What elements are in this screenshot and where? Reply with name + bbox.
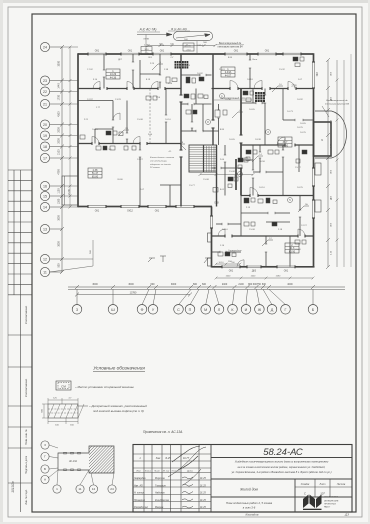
svg-text:тепловым пунктом В4: тепловым пунктом В4 — [217, 46, 243, 49]
svg-text:16.25: 16.25 — [297, 127, 303, 129]
svg-text:16.65: 16.65 — [229, 139, 235, 141]
svg-text:3: 3 — [44, 443, 46, 447]
svg-text:17.02: 17.02 — [87, 69, 93, 71]
key plan outline — [58, 446, 114, 473]
small bath partitions mid — [181, 103, 188, 105]
svg-text:16.10: 16.10 — [259, 187, 265, 189]
svg-text:01.25: 01.25 — [200, 507, 206, 509]
object cell — [294, 479, 296, 512]
svg-text:13780: 13780 — [130, 292, 137, 295]
svg-text:1: 1 — [56, 487, 58, 491]
svg-text:Зам: Зам — [156, 457, 161, 460]
svg-text:Инв. № подл.: Инв. № подл. — [25, 489, 28, 505]
svg-text:16.10: 16.10 — [222, 229, 228, 231]
svg-text:16.65: 16.65 — [300, 123, 306, 125]
designation cell — [211, 457, 352, 459]
svg-text:Лист: Лист — [153, 471, 160, 473]
svg-text:1013/2в: 1013/2в — [11, 481, 15, 493]
svg-text:ДЗ: ДЗ — [344, 513, 349, 517]
bottom axis circles — [72, 305, 82, 315]
svg-text:обществ. не доходя: обществ. не доходя — [150, 163, 172, 166]
svg-text:16.25: 16.25 — [297, 187, 303, 189]
flag leaders — [152, 64, 158, 70]
svg-text:750: 750 — [257, 283, 262, 286]
svg-text:14: 14 — [43, 205, 47, 209]
svg-text:ОК1: ОК1 — [95, 211, 100, 213]
svg-text:12.27: 12.27 — [137, 159, 143, 161]
svg-text:ОК1: ОК1 — [265, 51, 270, 53]
key plan hatched part — [62, 445, 142, 474]
svg-text:№ док: № док — [163, 470, 170, 473]
exterior wall right — [313, 53, 315, 62]
partition y160 mid right — [241, 159, 253, 161]
svg-text:АС-13А: АС-13А — [68, 460, 77, 463]
svg-text:Изм: Изм — [136, 471, 141, 473]
svg-text:Конибратов: Конибратов — [155, 499, 170, 502]
svg-text:на 1-м этаже в восточном жилом: на 1-м этаже в восточном жилом районе, о… — [238, 465, 326, 469]
fixtures — [166, 77, 170, 83]
lobby walls above stairs — [218, 104, 220, 110]
left dimension line — [61, 47, 63, 272]
svg-text:16.25: 16.25 — [300, 132, 306, 134]
svg-text:3000: 3000 — [58, 241, 61, 247]
bottom dimension line — [68, 286, 345, 288]
svg-text:1300: 1300 — [58, 198, 61, 204]
right rooms partitions — [240, 89, 242, 136]
svg-text:М: М — [204, 308, 207, 312]
svg-text:16.18: 16.18 — [247, 79, 253, 81]
svg-text:10.73: 10.73 — [287, 111, 293, 113]
svg-text:23: 23 — [43, 79, 47, 83]
svg-text:12: 12 — [92, 487, 96, 491]
title block grid — [143, 445, 145, 513]
svg-text:– Дискретный элемент, располож: – Дискретный элемент, расположенный — [88, 404, 147, 408]
svg-text:10.58: 10.58 — [259, 161, 265, 163]
svg-text:– Место установки стиральной м: – Место установки стиральной машины — [74, 385, 135, 389]
svg-text:800: 800 — [193, 283, 198, 286]
partition x170 lower — [169, 185, 171, 207]
svg-text:Стадия: Стадия — [301, 483, 310, 486]
svg-text:ОК1: ОК1 — [284, 271, 289, 273]
svg-text:1100: 1100 — [58, 188, 61, 194]
partition y224 mid — [216, 223, 222, 225]
svg-text:Условные обозначения: Условные обозначения — [93, 366, 145, 372]
svg-text:3000: 3000 — [58, 215, 61, 221]
room label boxes — [106, 69, 120, 79]
svg-text:15.77: 15.77 — [189, 185, 195, 187]
interior wall horizontal y88 left — [78, 88, 100, 90]
svg-text:2100: 2100 — [58, 149, 61, 155]
svg-text:Б-25: Б-25 — [165, 457, 171, 460]
svg-text:3: 3 — [76, 308, 78, 312]
partition x104 mid — [78, 100, 113, 102]
title block outer — [133, 445, 352, 513]
interior bearing wall vertical x181 — [180, 54, 182, 95]
svg-text:тепловым пунктом В5: тепловым пунктом В5 — [325, 103, 350, 105]
svg-text:85.80: 85.80 — [92, 175, 99, 178]
svg-text:4790: 4790 — [58, 169, 61, 175]
svg-text:Подпись: Подпись — [172, 470, 182, 473]
svg-text:Дата: Дата — [186, 471, 194, 473]
svg-text:Ж: Ж — [258, 308, 262, 312]
svg-text:СМ: СМ — [61, 385, 66, 389]
svg-text:44.36: 44.36 — [110, 76, 117, 79]
svg-text:План отделочных работ 2, 5 эта: План отделочных работ 2, 5 этажа — [226, 501, 273, 505]
top small dimension marks — [148, 45, 215, 47]
right wall protrusions — [315, 163, 321, 175]
stage cells — [314, 479, 316, 487]
svg-text:Н. контр.: Н. контр. — [134, 492, 145, 495]
exterior wall left — [77, 53, 79, 207]
svg-text:600: 600 — [262, 283, 267, 286]
partition x104 upper — [103, 54, 105, 70]
svg-text:А (с АС-7А): А (с АС-7А) — [139, 28, 157, 32]
svg-text:3000: 3000 — [58, 60, 61, 66]
svg-text:Разработал: Разработал — [134, 506, 149, 509]
svg-text:15.08: 15.08 — [249, 229, 255, 231]
svg-text:Жилой дом: Жилой дом — [239, 488, 258, 492]
svg-text:ОК1: ОК1 — [234, 51, 239, 53]
interior dim line y174 — [200, 174, 253, 176]
closet walls top middle — [159, 54, 161, 75]
svg-text:ОК1: ОК1 — [155, 211, 160, 213]
exterior wall mid vertical — [211, 207, 213, 217]
svg-text:01.25: 01.25 — [200, 493, 206, 495]
vent shafts checkered — [175, 61, 182, 69]
svg-text:12.27: 12.27 — [301, 225, 307, 227]
svg-text:21.80: 21.80 — [69, 188, 71, 194]
left attribute strip table — [8, 169, 32, 171]
svg-text:для вентиляции: для вентиляции — [150, 159, 168, 162]
svg-text:И: И — [245, 308, 248, 312]
svg-text:ДК3: ДК3 — [252, 271, 257, 273]
svg-text:ПРОЕКТНЫХ: ПРОЕКТНЫХ — [324, 504, 337, 506]
svg-text:2100: 2100 — [238, 283, 244, 286]
svg-text:3000: 3000 — [171, 283, 177, 286]
svg-text:Глазырин: Глазырин — [155, 484, 166, 487]
exterior wall bottom-right — [212, 266, 223, 268]
svg-text:24: 24 — [110, 487, 114, 491]
svg-text:ОК1: ОК1 — [95, 51, 100, 53]
svg-text:15.77: 15.77 — [295, 167, 301, 169]
svg-text:Вентиляционный de: Вентиляционный de — [219, 42, 242, 45]
corridor wall y145 right — [241, 144, 285, 146]
svg-text:12: 12 — [43, 257, 47, 261]
partition x300 bottom right — [299, 196, 301, 211]
svg-text:Макуев: Макуев — [155, 506, 164, 509]
svg-text:13: 13 — [43, 227, 47, 231]
svg-text:РАБОТ: РАБОТ — [324, 506, 331, 509]
svg-text:01.25: 01.25 — [200, 485, 206, 487]
svg-text:13.61: 13.61 — [219, 69, 225, 71]
lift shaft protrusion — [314, 122, 332, 156]
svg-text:58.24-АС: 58.24-АС — [263, 447, 303, 458]
left axis circles — [40, 42, 49, 51]
svg-text:Колич: Колич — [145, 471, 152, 473]
svg-text:22: 22 — [43, 90, 47, 94]
svg-text:17: 17 — [43, 156, 47, 160]
svg-text:15: 15 — [43, 194, 47, 198]
svg-text:16.65: 16.65 — [249, 109, 255, 111]
svg-text:10.38: 10.38 — [225, 99, 231, 101]
svg-text:600: 600 — [151, 283, 156, 286]
bath top right — [241, 102, 256, 104]
svg-text:12.97: 12.97 — [87, 99, 93, 101]
svg-text:Согласовано: Согласовано — [24, 379, 28, 398]
svg-text:2000: 2000 — [58, 138, 61, 144]
svg-text:13.29: 13.29 — [115, 99, 121, 101]
svg-text:2Н: 2Н — [125, 128, 128, 130]
svg-text:Г: Г — [285, 308, 287, 312]
svg-text:ОК1: ОК1 — [128, 51, 133, 53]
svg-text:Б: Б — [44, 467, 46, 471]
svg-text:Вент: Вент — [253, 59, 258, 61]
svg-text:С: С — [177, 308, 180, 312]
svg-text:2000: 2000 — [58, 127, 61, 133]
description cell — [211, 478, 352, 480]
balcony left — [62, 176, 78, 205]
svg-text:ОК1: ОК1 — [160, 51, 165, 53]
svg-text:Нач. АО: Нач. АО — [134, 484, 143, 487]
exterior wall top — [78, 53, 88, 55]
svg-text:3000: 3000 — [92, 283, 98, 286]
partition y185 — [160, 184, 181, 186]
svg-text:2400: 2400 — [222, 283, 228, 286]
svg-text:15.08: 15.08 — [137, 119, 143, 121]
door swings — [93, 82, 100, 89]
svg-text:ОК1: ОК1 — [229, 271, 234, 273]
svg-text:15.08: 15.08 — [203, 179, 209, 181]
partition x133 upper — [132, 54, 134, 62]
svg-text:44.07: 44.07 — [225, 74, 232, 77]
svg-text:Лист: Лист — [319, 484, 326, 486]
svg-text:П: П — [189, 308, 192, 312]
svg-text:Морозов: Морозов — [155, 477, 165, 480]
svg-text:24: 24 — [43, 45, 47, 49]
svg-text:11: 11 — [43, 270, 47, 274]
corridor wall y143 left — [78, 143, 92, 145]
svg-text:Ф: Ф — [141, 308, 144, 312]
partition y222 bottom right — [266, 221, 290, 223]
svg-text:Согласовано: Согласовано — [24, 306, 28, 325]
svg-text:Набоков: Набоков — [155, 492, 165, 495]
svg-text:10-77: 10-77 — [183, 457, 190, 460]
stairwell — [189, 145, 217, 172]
svg-text:С: С — [304, 492, 306, 496]
svg-text:600: 600 — [202, 283, 207, 286]
svg-text:Листов: Листов — [336, 484, 346, 486]
svg-text:12 этаже: 12 этаже — [150, 167, 161, 169]
svg-text:1440: 1440 — [58, 83, 61, 89]
svg-text:16.92: 16.92 — [197, 73, 203, 75]
svg-text:4000: 4000 — [287, 283, 293, 286]
interior bearing wall vertical x213 upper — [212, 54, 214, 120]
svg-text:16.92: 16.92 — [297, 99, 303, 101]
legend discrete element — [48, 404, 78, 418]
svg-text:под кнопкой вызова лифта (см п: под кнопкой вызова лифта (см п. 9) — [93, 409, 144, 413]
partition x140 lower — [139, 144, 141, 151]
svg-text:56.90: 56.90 — [282, 144, 289, 147]
svg-text:500: 500 — [58, 263, 61, 268]
svg-text:ОК12: ОК12 — [127, 211, 133, 213]
svg-text:20: 20 — [43, 123, 47, 127]
svg-text:4300: 4300 — [58, 111, 61, 117]
svg-text:Кашел башня с жалюзи: Кашел башня с жалюзи — [150, 157, 175, 159]
svg-text:18.38: 18.38 — [255, 139, 261, 141]
svg-text:107: 107 — [320, 492, 325, 496]
svg-text:Б (с АС-10): Б (с АС-10) — [171, 27, 186, 31]
svg-text:ОК7: ОК7 — [317, 71, 319, 76]
svg-text:1700: 1700 — [58, 94, 61, 100]
svg-text:21.80: 21.80 — [295, 249, 301, 251]
closets at mid wall — [208, 233, 212, 242]
svg-text:15.08: 15.08 — [229, 171, 235, 173]
svg-text:Примечания см. л. АС-13А.: Примечания см. л. АС-13А. — [143, 430, 183, 434]
svg-text:Подпись и дата: Подпись и дата — [25, 455, 28, 474]
svg-text:3000: 3000 — [128, 283, 134, 286]
interior wall horizontal y88 right — [212, 88, 231, 90]
key plan circles — [41, 441, 49, 449]
svg-text:10.70: 10.70 — [92, 129, 98, 131]
svg-text:11: 11 — [78, 487, 81, 491]
svg-text:19: 19 — [43, 134, 47, 138]
svg-text:в осях 3-6: в осях 3-6 — [243, 506, 256, 510]
svg-text:Проверил: Проверил — [134, 499, 146, 502]
kitchen clusters mid column — [235, 159, 237, 190]
svg-text:16.10: 16.10 — [218, 262, 224, 264]
svg-text:Взам. инв. №: Взам. инв. № — [25, 429, 28, 445]
svg-text:18: 18 — [43, 145, 47, 149]
svg-text:ЧЕЛЯБИНСКИЙ: ЧЕЛЯБИНСКИЙ — [324, 500, 339, 503]
svg-text:20.80: 20.80 — [117, 179, 123, 181]
svg-text:ОАО ИНСТИТУТ: ОАО ИНСТИТУТ — [324, 496, 339, 499]
svg-text:21: 21 — [43, 102, 47, 106]
svg-text:ОКПВ: ОКПВ — [143, 39, 149, 41]
svg-text:01.25: 01.25 — [200, 478, 206, 480]
svg-text:16.10: 16.10 — [165, 119, 171, 121]
exterior wall bottom-left — [78, 206, 88, 208]
svg-text:Гардеробная: Гардеробная — [228, 250, 242, 252]
svg-text:Каскадов: Каскадов — [246, 513, 259, 517]
right dimension line — [327, 60, 329, 267]
svg-text:16: 16 — [43, 184, 47, 188]
svg-text:Усадебные тысячеквартирного жи: Усадебные тысячеквартирного жилого дома … — [235, 460, 329, 464]
svg-text:Чефардин: Чефардин — [134, 477, 146, 480]
bay arc — [332, 111, 347, 158]
partition x250 top right — [249, 54, 251, 60]
inner dim line y278 — [216, 277, 313, 279]
leader marks — [162, 256, 164, 262]
svg-text:ул. Сергея Есенина, 4-м рядом: ул. Сергея Есенина, 4-м рядом и Воеводск… — [231, 470, 332, 474]
bath partitions above stairs — [191, 104, 193, 122]
svg-text:01.25: 01.25 — [200, 500, 206, 502]
logo — [303, 495, 322, 511]
svg-text:15.32: 15.32 — [279, 69, 285, 71]
legend washing machine box — [56, 381, 71, 390]
